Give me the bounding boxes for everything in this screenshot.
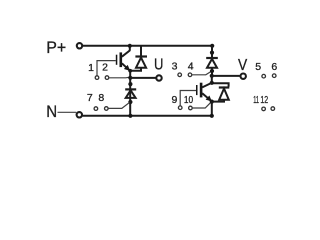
pin 6 [272, 74, 276, 78]
wire aux (pin8 to D2 anode) [109, 103, 130, 109]
node D2 N-rail junction [128, 114, 132, 118]
wire aux (pin10 to Q2 emitter node) [193, 102, 211, 108]
wire N rail [82, 115, 212, 117]
svg-text:3: 3 [172, 61, 178, 73]
svg-text:U: U [154, 56, 163, 73]
node V junction [210, 74, 214, 78]
label 9 [171, 94, 177, 106]
pin 1 [95, 76, 99, 80]
wire Q2 emitter to N rail [211, 102, 213, 116]
wire Q1 collector [129, 46, 131, 51]
svg-text:V: V [238, 57, 247, 74]
pin 5 [262, 74, 266, 78]
label 8 [98, 92, 104, 104]
pin 2 [105, 76, 109, 80]
svg-text:8: 8 [98, 92, 104, 104]
label 4 [188, 61, 194, 73]
diode D4 [212, 88, 229, 102]
svg-text:6: 6 [271, 61, 277, 73]
terminal N [77, 112, 82, 117]
svg-text:1: 1 [88, 62, 94, 74]
svg-text:7: 7 [87, 92, 93, 104]
label 6 [271, 61, 277, 73]
label 12 [260, 94, 268, 106]
op IGBT Q2 [196, 83, 212, 102]
pin 7 [94, 107, 98, 111]
label N [46, 103, 57, 121]
node Q2 emitter junction [210, 100, 214, 104]
wire V to Q2 collector bus [212, 76, 229, 87]
terminal V [241, 74, 246, 79]
node D3 mid dot [210, 51, 214, 55]
node D3 anode junction [210, 69, 214, 73]
label 1 [88, 62, 94, 74]
wire P rail [83, 45, 213, 47]
svg-text:5: 5 [255, 61, 261, 73]
diode D3 [206, 46, 218, 76]
pin 12 [271, 107, 275, 111]
label U [154, 56, 163, 73]
pin 4 [188, 73, 192, 77]
wire aux (pin4 to D3 anode) [192, 71, 211, 75]
op IGBT Q1 [116, 50, 130, 71]
wire gate 1 (pin1 riser to Q1 gate) [97, 61, 116, 76]
label 10 [184, 94, 193, 106]
wire U node line [130, 77, 156, 79]
svg-text:11: 11 [253, 94, 259, 106]
label 7 [87, 92, 93, 104]
node emitter-D1 junction [128, 69, 132, 73]
svg-text:P+: P+ [46, 39, 66, 57]
terminal U [156, 75, 161, 80]
wire gate 2 (pin9 riser to Q2 gate) [180, 91, 196, 106]
svg-text:10: 10 [184, 94, 193, 106]
label 2 [102, 62, 108, 74]
label 5 [255, 61, 261, 73]
label V [238, 57, 247, 74]
svg-text:12: 12 [260, 94, 268, 106]
node U junction [128, 76, 132, 80]
label 3 [172, 61, 178, 73]
pin 10 [189, 106, 193, 110]
label P+ [46, 39, 66, 57]
pin 11 [262, 107, 266, 111]
label 11 [253, 94, 259, 106]
wire V node line [212, 75, 240, 77]
diode D2 [125, 89, 136, 98]
svg-text:2: 2 [102, 62, 108, 74]
svg-text:N: N [46, 103, 57, 121]
svg-text:9: 9 [171, 94, 177, 106]
node N rail end junction [210, 114, 214, 118]
node Q1 collector junction [128, 44, 132, 48]
terminal P+ [77, 43, 82, 48]
node D2 anode junction [128, 100, 132, 104]
wire aux emitter (pin2 to U node) [109, 76, 129, 79]
node bus-collector junction [210, 81, 214, 85]
diode D1 [130, 46, 147, 71]
node P rail end corner [210, 44, 214, 48]
node D2 top dot [128, 82, 132, 86]
wire Q1 emitter / U-D2 vertical [129, 71, 131, 116]
svg-text:4: 4 [188, 61, 194, 73]
pin 9 [178, 106, 182, 110]
pin 3 [178, 73, 182, 77]
wire N lead [58, 111, 77, 113]
pin 8 [105, 107, 109, 111]
